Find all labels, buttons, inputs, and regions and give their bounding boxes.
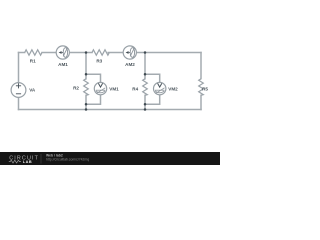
svg-text:R3: R3 <box>96 58 102 63</box>
svg-text:http://circuitlab.com/c/742mq: http://circuitlab.com/c/742mq <box>46 157 89 161</box>
svg-text:VM1: VM1 <box>109 87 119 92</box>
svg-text:VM2: VM2 <box>168 86 178 91</box>
svg-text:AM1: AM1 <box>58 62 68 67</box>
svg-text:R4: R4 <box>132 86 138 91</box>
svg-text:AM2: AM2 <box>125 62 135 67</box>
svg-text:R2: R2 <box>73 85 79 90</box>
svg-text:LAB: LAB <box>23 160 32 164</box>
svg-text:R1: R1 <box>30 58 36 63</box>
svg-text:R5: R5 <box>202 86 208 91</box>
svg-text:VA: VA <box>29 87 36 92</box>
